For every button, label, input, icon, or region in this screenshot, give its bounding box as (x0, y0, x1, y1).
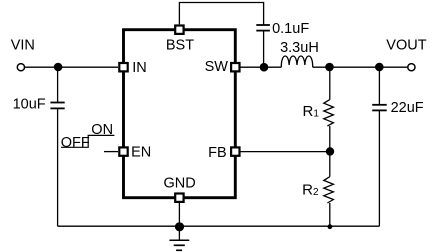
svg-text:0.1uF: 0.1uF (272, 21, 309, 37)
svg-text:VOUT: VOUT (386, 37, 426, 53)
svg-text:OFF: OFF (61, 135, 90, 151)
svg-text:VIN: VIN (11, 38, 35, 54)
svg-text:SW: SW (205, 59, 229, 75)
svg-text:IN: IN (132, 60, 147, 76)
svg-text:3.3uH: 3.3uH (280, 40, 319, 56)
svg-text:ON: ON (91, 122, 113, 138)
svg-text:EN: EN (131, 145, 151, 161)
svg-text:22uF: 22uF (391, 100, 424, 116)
svg-text:GND: GND (164, 175, 196, 191)
svg-text:BST: BST (166, 38, 194, 54)
svg-text:10uF: 10uF (13, 97, 46, 113)
svg-text:FB: FB (208, 145, 227, 161)
